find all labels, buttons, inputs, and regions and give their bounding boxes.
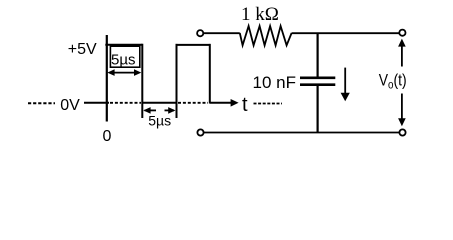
- wire Vo dimension arrow upper (points up): [401, 43, 403, 67]
- wire Vo dimension arrow lower (points down): [401, 94, 403, 122]
- svg-text:t: t: [242, 94, 248, 116]
- wire capacitor bottom stub: [317, 86, 319, 133]
- wire solid axis segment through origin: [84, 102, 109, 104]
- wire top-left to resistor: [204, 32, 240, 34]
- wire pulse 2 falling edge: [209, 44, 211, 104]
- wire capacitor top stub: [317, 33, 319, 76]
- node output terminal bottom-right (open circle): [399, 129, 405, 135]
- wire pulse 2 rising edge and measurement tick: [176, 44, 178, 118]
- svg-text:5µs: 5µs: [111, 51, 136, 68]
- svg-text:+5V: +5V: [68, 41, 97, 58]
- capacitor C bottom plate: [300, 83, 335, 86]
- capacitor C top plate: [300, 77, 335, 80]
- wire solid axis between pulses: [142, 102, 176, 104]
- wire pulse 1 falling edge and measurement tick: [141, 44, 143, 118]
- node input terminal top-left (open circle): [197, 30, 203, 36]
- svg-text:10 nF: 10 nF: [253, 73, 296, 92]
- node input terminal bottom-left (open circle): [197, 129, 203, 135]
- wire pulse width arrow (double headed): [110, 72, 139, 74]
- wire dashed axis under pulse 2: [178, 102, 208, 104]
- svg-text:5µs: 5µs: [148, 113, 171, 129]
- wire pulse 2 top edge: [176, 44, 211, 46]
- node output terminal top-right (open circle): [399, 30, 405, 36]
- svg-text:Vo(t): Vo(t): [379, 71, 407, 92]
- wire dashed lead-in of 0V axis: [28, 102, 55, 104]
- wire current direction arrow beside capacitor: [344, 68, 346, 97]
- wire dashed axis continuation after t: [254, 103, 283, 105]
- wire low interval arrow left (points left): [145, 109, 157, 111]
- wire bottom rail: [204, 132, 400, 134]
- svg-text:0V: 0V: [60, 97, 80, 114]
- wire pulse 1 top edge: [105, 44, 142, 46]
- wire resistor to output node: [292, 32, 400, 34]
- wire low interval arrow right (points right): [165, 109, 175, 111]
- svg-text:0: 0: [103, 128, 112, 145]
- resistor R (zigzag): [240, 26, 292, 45]
- node 5us label box inside pulse 1: [110, 46, 139, 67]
- wire time axis with arrowhead: [210, 102, 233, 104]
- node vertical axis / pulse 1 rising edge: [106, 35, 108, 122]
- wire dashed axis under pulse 1: [110, 102, 141, 104]
- svg-text:1 kΩ: 1 kΩ: [241, 4, 279, 25]
